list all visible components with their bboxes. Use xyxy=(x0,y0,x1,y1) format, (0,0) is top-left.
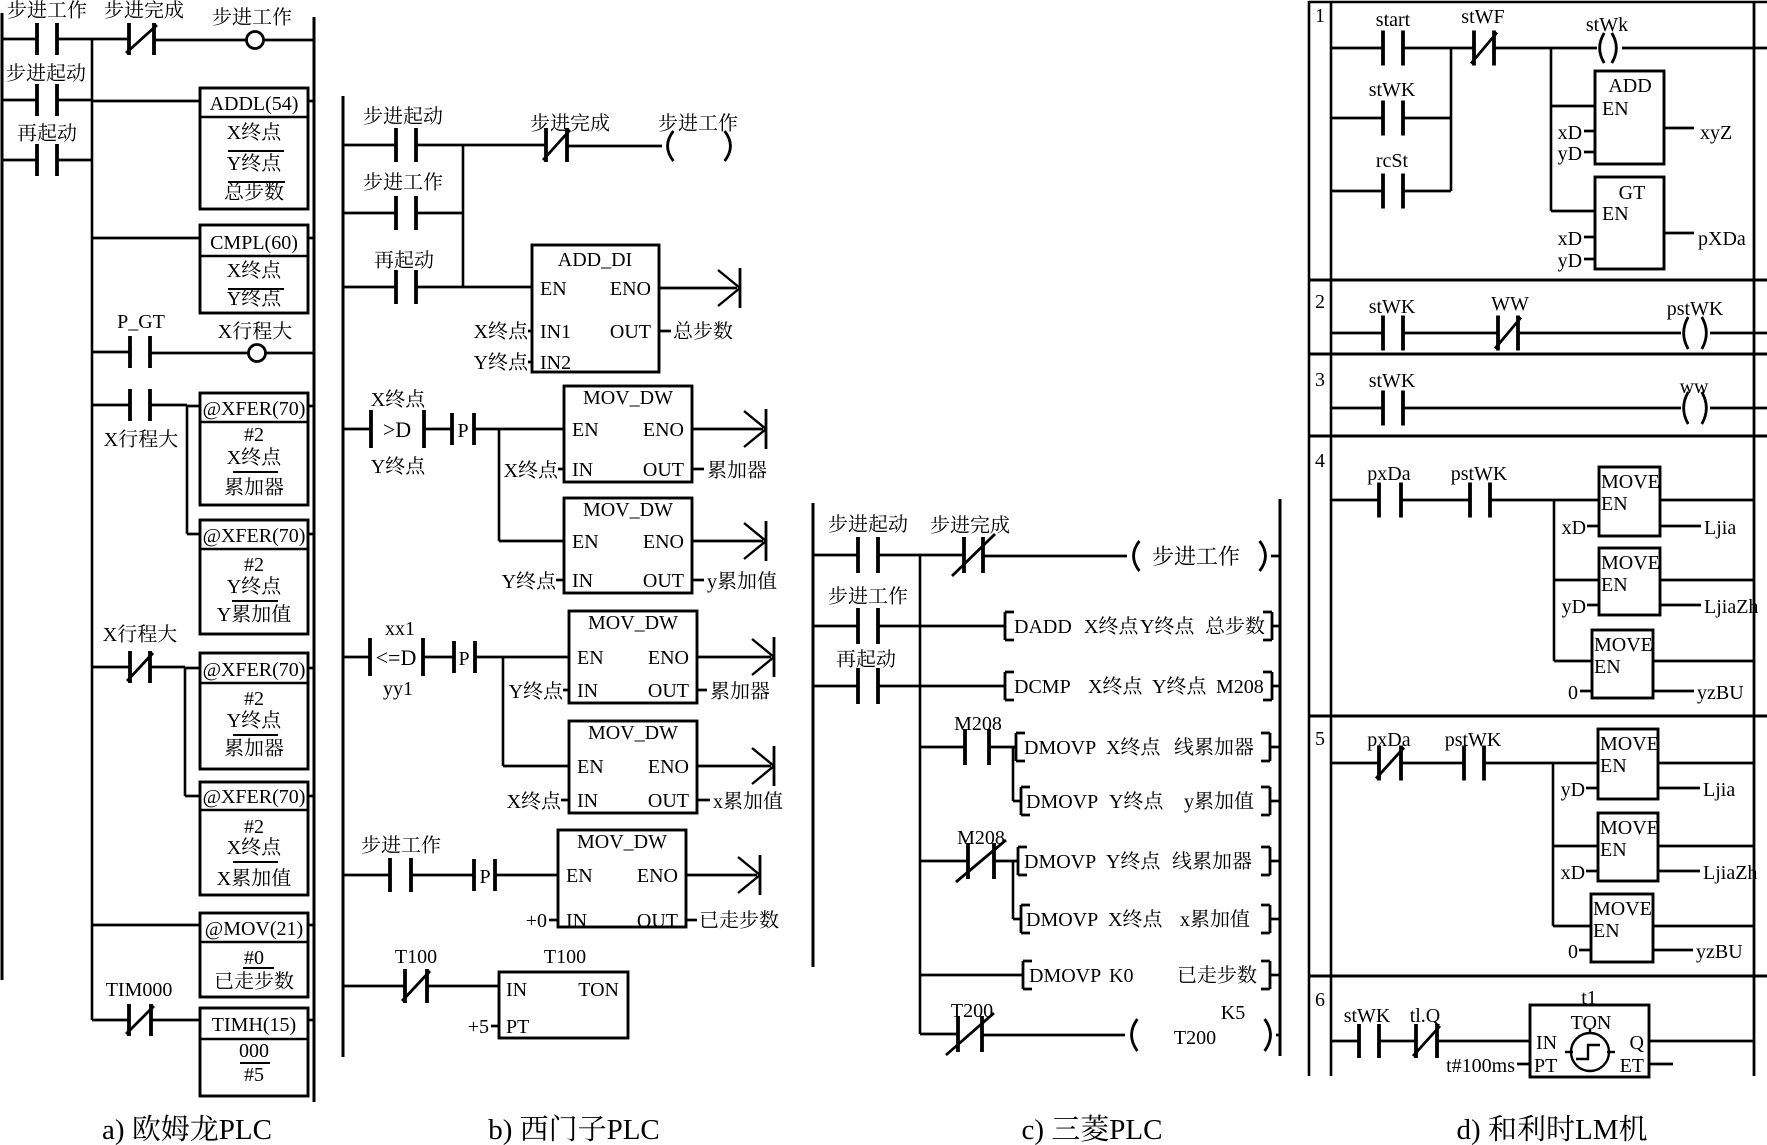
svg-text:LjiaZh: LjiaZh xyxy=(1704,596,1758,618)
MOV_DW #1 pin EN xyxy=(572,419,599,441)
MOV_DW #2 pin IN xyxy=(572,570,593,592)
MOVE n5-2 title xyxy=(1600,817,1659,839)
MOVE n4-2 pin EN xyxy=(1601,574,1628,596)
contact stWK (n1) xyxy=(1383,101,1403,136)
MOV_DW #4 pin EN xyxy=(577,756,604,778)
ADD_DI title xyxy=(558,249,632,271)
function block MOV_DW #1 xyxy=(564,386,692,482)
label xyZ output xyxy=(1700,122,1732,144)
wire: P to MOV3 xyxy=(475,656,569,659)
wire: rung2 a left xyxy=(2,99,37,102)
MOV_DW #2 pin EN xyxy=(572,531,599,553)
wire: ADD_DI OUT out xyxy=(659,330,671,333)
dash yD-ADD xyxy=(1584,151,1595,154)
svg-text:TON: TON xyxy=(578,979,619,1001)
CMPL overline xyxy=(228,288,284,290)
branch vertical n1 (ADD/GT) xyxy=(1550,48,1553,211)
svg-text:y: y xyxy=(707,571,717,593)
@XFER(70) #4 title xyxy=(203,786,306,808)
label network number 2 xyxy=(1315,291,1325,313)
svg-text:K0: K0 xyxy=(1109,965,1133,987)
function block CMPL(60) xyxy=(200,225,308,313)
wire: rung2 b left xyxy=(343,212,396,215)
MOVE n5-3 title xyxy=(1593,898,1652,920)
wire: branch to n5-2 xyxy=(1553,845,1598,848)
branch trunk (c) xyxy=(919,555,922,1034)
TON title xyxy=(578,979,619,1001)
function block MOV_DW #2 xyxy=(564,498,692,593)
XFER4 tick to rail xyxy=(308,795,314,798)
svg-text:EN: EN xyxy=(572,531,599,553)
svg-text:EN: EN xyxy=(577,647,604,669)
svg-text:rcSt: rcSt xyxy=(1376,150,1409,172)
svg-text:start: start xyxy=(1376,9,1411,31)
wire: n3 to coil xyxy=(1403,407,1681,410)
label xD at n5-2 xyxy=(1561,862,1585,884)
TON pin PT xyxy=(506,1016,529,1038)
open branch arrow (MOV5) xyxy=(738,855,760,895)
label TIM000 xyxy=(106,979,173,1001)
svg-text:X: X xyxy=(227,260,242,282)
label 0 at n5-3 xyxy=(1568,941,1578,963)
wire: trunk to CMPL xyxy=(92,237,200,240)
NC contact TIM000 xyxy=(126,1004,154,1036)
svg-text:T100: T100 xyxy=(395,946,437,968)
svg-text:ADDL(54): ADDL(54) xyxy=(210,93,299,115)
svg-text:EN: EN xyxy=(566,865,593,887)
dash X终点-MOV1 xyxy=(558,468,564,471)
function block MOV_DW #5 xyxy=(558,830,686,927)
dash xD n5-2 xyxy=(1586,870,1598,873)
svg-text:xD: xD xyxy=(1558,228,1582,250)
label stWK (n1) xyxy=(1369,79,1416,101)
contact 步进工作 (a r1) xyxy=(37,23,57,55)
label 步进工作 coil label (c r1) xyxy=(1153,546,1239,566)
svg-text:Y: Y xyxy=(1152,676,1166,698)
MOVE n4-1 pin EN xyxy=(1601,493,1628,515)
svg-text:TIMH(15): TIMH(15) xyxy=(212,1014,296,1036)
svg-text:PLC: PLC xyxy=(607,1114,660,1145)
MOVE n4-3 title xyxy=(1594,634,1653,656)
svg-text:M208: M208 xyxy=(957,827,1005,849)
label yy1 (cmp2 bottom) xyxy=(383,678,413,700)
wire: n3 rung left xyxy=(1331,407,1383,410)
MOVE n5-1 pin EN xyxy=(1600,755,1627,777)
svg-text:PLC: PLC xyxy=(1109,1114,1162,1145)
label pXDa output xyxy=(1698,228,1746,250)
function block ADD_DI xyxy=(532,245,659,372)
svg-text:Y: Y xyxy=(371,456,385,478)
svg-text:IN: IN xyxy=(506,979,527,1001)
wire: T200 coil to rail xyxy=(1276,1034,1280,1037)
ADDL overline 2 xyxy=(228,181,285,183)
wire: rung5 b left xyxy=(343,874,390,877)
svg-text:DMOVP: DMOVP xyxy=(1026,791,1098,813)
label ADDL row 总步数 xyxy=(225,182,284,200)
label caption a xyxy=(102,1114,272,1145)
wire: branch to MOV2 xyxy=(499,540,564,543)
svg-text:t#100ms: t#100ms xyxy=(1446,1055,1515,1077)
svg-text:OUT: OUT xyxy=(648,680,689,702)
label 0 at n4-3 xyxy=(1568,682,1578,704)
label +0 at MOV5 IN xyxy=(526,910,547,932)
wire: MOV1 OUT out xyxy=(692,468,704,471)
wire: n1 rcSt to branch xyxy=(1403,190,1451,193)
label xD at ADD xyxy=(1558,122,1582,144)
CMPL(60) title xyxy=(210,232,298,254)
wire: n4 rung left xyxy=(1331,499,1379,502)
svg-text:CMPL(60): CMPL(60) xyxy=(210,232,298,254)
svg-text:GT: GT xyxy=(1619,182,1646,204)
svg-text:#5: #5 xyxy=(244,1064,264,1086)
label yD at n4-2 xyxy=(1562,596,1586,618)
label 累加器 output (MOV3) xyxy=(711,681,770,699)
svg-text:stWK: stWK xyxy=(1369,79,1416,101)
svg-text:pxDa: pxDa xyxy=(1367,463,1410,485)
label 步进工作 (b r2) xyxy=(364,172,443,190)
svg-text:EN: EN xyxy=(572,419,599,441)
label x累加值 output (MOV4) xyxy=(713,791,782,813)
wire: rung3 b left xyxy=(343,286,396,289)
label stWK (n6) xyxy=(1344,1005,1391,1027)
svg-text:IN: IN xyxy=(566,910,587,932)
svg-text:Y: Y xyxy=(227,153,241,175)
svg-text:X: X xyxy=(474,321,489,343)
label LjiaZh output (n4) xyxy=(1704,596,1758,618)
wire: branch to XFER1 xyxy=(187,405,200,408)
outer left border (d) xyxy=(1308,1,1311,1076)
svg-text:P_GT: P_GT xyxy=(117,311,165,333)
wire: n5-1 ENO to rail xyxy=(1658,762,1754,765)
coil 步进工作 (a r1) xyxy=(247,32,264,49)
svg-text:M208: M208 xyxy=(954,713,1002,735)
wire: rung P_GT left xyxy=(92,351,130,354)
contact pstWK (n5) xyxy=(1464,746,1484,781)
svg-text:X: X xyxy=(104,429,119,451)
label pxDa (n5) xyxy=(1367,729,1410,751)
svg-text:Y: Y xyxy=(474,352,488,374)
svg-text:ENO: ENO xyxy=(637,865,678,887)
function block @XFER(70) #1 xyxy=(200,393,308,505)
contact start xyxy=(1383,31,1403,66)
MOV_DW #5 pin IN xyxy=(566,910,587,932)
svg-text:tl.Q: tl.Q xyxy=(1410,1005,1441,1027)
TON (d) title xyxy=(1571,1012,1612,1034)
XFER3 overline xyxy=(233,734,278,736)
function block GT xyxy=(1595,177,1664,269)
svg-text:c): c) xyxy=(1022,1114,1045,1145)
wire: trunk to ADDL xyxy=(92,100,200,103)
MOV_DW #3 title xyxy=(588,612,678,634)
DMOVP5 tick to rail xyxy=(1270,974,1280,977)
wire: coil to rail (c r1) xyxy=(1271,555,1280,558)
instruction DCMP brackets xyxy=(1005,672,1272,700)
contact rcSt xyxy=(1383,174,1403,209)
CMPL title divider xyxy=(200,255,308,257)
dash Y终点-MOV2 xyxy=(556,579,564,582)
label XFER1 row #2 xyxy=(244,424,264,446)
wire: rung3 a to trunk xyxy=(57,159,92,162)
ADDL tick to rail xyxy=(308,100,314,103)
function block MOVE n5-2 xyxy=(1598,813,1658,881)
TIMH(15) title xyxy=(212,1014,296,1036)
MOV_DW #3 pin EN xyxy=(577,647,604,669)
label X行程大 (NC contact) xyxy=(103,624,177,646)
wire: TON Q to rail xyxy=(1649,1040,1754,1043)
DMOVP1 tick to rail xyxy=(1270,746,1280,749)
svg-text:xyZ: xyZ xyxy=(1700,122,1732,144)
svg-text:IN: IN xyxy=(577,790,598,812)
svg-text:DMOVP: DMOVP xyxy=(1024,737,1096,759)
wire: ADD out xyxy=(1664,127,1694,130)
wire: branch to n5-3 xyxy=(1553,925,1591,928)
label X行程大 coil label xyxy=(218,321,292,343)
svg-text:stWK: stWK xyxy=(1369,370,1416,392)
wire: n1 coil to edge xyxy=(1622,47,1767,50)
label T100 contact label xyxy=(395,946,437,968)
MOV_DW #3 pin IN xyxy=(577,680,598,702)
svg-text:X: X xyxy=(218,321,233,343)
svg-text:EN: EN xyxy=(1602,203,1629,225)
contact 步进工作 (b r2) xyxy=(396,196,416,230)
P contact (r6) xyxy=(474,859,495,891)
MOV_DW #2 pin ENO xyxy=(643,531,684,553)
label 再起动 (a r3) xyxy=(18,123,77,141)
NC contact WW xyxy=(1495,316,1521,351)
function block TIMH(15) xyxy=(200,1008,308,1096)
wire: n6 mid xyxy=(1379,1040,1416,1043)
wire: rung cmp2 left xyxy=(343,656,370,659)
wire: n5 rung left xyxy=(1331,762,1379,765)
XFER4 overline xyxy=(233,861,278,863)
MOVE n4-2 title xyxy=(1601,552,1660,574)
GT pin EN xyxy=(1602,203,1629,225)
svg-text:5: 5 xyxy=(1315,728,1325,750)
wire: n1 mid1 xyxy=(1403,47,1474,50)
dash X终点-IN1 xyxy=(528,330,532,333)
label pstWK (n4) xyxy=(1451,463,1508,485)
DMOVP2 tick to rail xyxy=(1270,800,1280,803)
wire: rung XFER3 left xyxy=(92,666,130,669)
svg-text:+5: +5 xyxy=(468,1016,489,1038)
@XFER(70) #2 title xyxy=(203,525,306,547)
dash yD n4-2 xyxy=(1587,604,1599,607)
wire: MOV5 ENO out xyxy=(686,874,757,877)
svg-text:T200: T200 xyxy=(1174,1027,1216,1049)
label Ljia output (n5) xyxy=(1703,779,1735,801)
open branch arrow (MOV3) xyxy=(752,637,774,677)
branch vertical (XFER3/4) xyxy=(184,667,187,796)
wire: rung T100 left xyxy=(343,985,405,988)
instruction DMOVP1 text xyxy=(1024,737,1254,759)
label stWk xyxy=(1586,14,1628,36)
label 步进工作 (b r6) xyxy=(362,835,441,853)
branch vertical (MOV3/4) xyxy=(502,657,505,766)
@MOV(21) title xyxy=(205,918,303,940)
svg-text:Y: Y xyxy=(217,604,231,626)
dash 0 n4-3 xyxy=(1580,690,1592,693)
ADD pin EN xyxy=(1602,98,1629,120)
svg-text:x: x xyxy=(713,791,723,813)
left power rail (a) xyxy=(1,13,4,980)
wire: n4-2 ENO to rail xyxy=(1660,579,1754,582)
function block MOVE n4-1 xyxy=(1599,467,1660,536)
XFER1 tick to rail xyxy=(308,405,314,408)
NC contact 步进完成 (b r1) xyxy=(543,128,570,162)
MOV_DW #1 title xyxy=(583,387,673,409)
label 步进工作 (c r2) xyxy=(829,586,908,604)
svg-text:+0: +0 xyxy=(526,910,547,932)
ADDL(54) title xyxy=(210,93,299,115)
NC contact M208 xyxy=(956,840,1006,882)
contact 再起动 (a r3) xyxy=(37,144,57,176)
wire: branch to GT EN xyxy=(1551,210,1595,213)
label T100 timer name xyxy=(544,946,586,968)
wire: rung TIMH left xyxy=(92,1019,129,1022)
contact 步进起动 (a r2) xyxy=(37,84,57,116)
wire: n3 coil to edge xyxy=(1710,407,1767,410)
network separator 3-4 xyxy=(1309,435,1767,438)
NC contact 步进完成 (a r1) xyxy=(126,23,157,55)
svg-text:ET: ET xyxy=(1620,1055,1644,1077)
wire: n5-3 ENO to rail xyxy=(1653,925,1754,928)
wire: n5-2 out xyxy=(1658,870,1700,873)
svg-text:ENO: ENO xyxy=(643,531,684,553)
dash yD n5-1 xyxy=(1586,787,1598,790)
wire: rung cmp1 left xyxy=(343,428,371,431)
svg-text:yD: yD xyxy=(1562,596,1586,618)
P text (r4) xyxy=(457,420,468,442)
wire: contact to branch1 xyxy=(150,404,187,407)
TIMH tick to rail xyxy=(308,1019,314,1022)
wire: MOV3 ENO out xyxy=(697,656,771,659)
label xD at GT xyxy=(1558,228,1582,250)
svg-text:PT: PT xyxy=(506,1016,529,1038)
right power rail (c) xyxy=(1279,499,1282,1056)
wire: n1 rcSt rung xyxy=(1331,190,1383,193)
dash +0-MOV5 xyxy=(549,919,558,922)
P contact (r5) xyxy=(454,641,475,673)
svg-text:X: X xyxy=(1084,616,1099,638)
branch vertical n1 (stWK/rcSt) xyxy=(1450,48,1453,191)
wire: rung1 c to coil xyxy=(983,555,1127,558)
wire: branch to DMOVP4 xyxy=(1013,918,1021,921)
wire: GT out xyxy=(1664,232,1694,235)
wire: P to MOV5 xyxy=(495,874,558,877)
label XFER4 row #2 xyxy=(244,816,264,838)
contact 步进起动 (b r1) xyxy=(396,128,416,162)
wire: n4-1 ENO to rail xyxy=(1660,499,1754,502)
wire: MOV1 ENO out xyxy=(692,428,763,431)
svg-text:X: X xyxy=(103,624,118,646)
svg-text:X: X xyxy=(1088,676,1103,698)
wire: rung3 c mid xyxy=(878,685,1005,688)
wire: M208b to bracket xyxy=(994,860,1018,863)
wire: n4 to branch xyxy=(1490,499,1599,502)
label network number 5 xyxy=(1315,728,1325,750)
wire: rung2 c left xyxy=(813,625,858,628)
label t#100ms at PT xyxy=(1446,1055,1515,1077)
svg-text:MOV_DW: MOV_DW xyxy=(588,612,678,634)
coil ww xyxy=(1684,392,1707,424)
wire: n1 stWK to branch xyxy=(1403,117,1451,120)
svg-text:ENO: ENO xyxy=(648,756,689,778)
open branch arrow (MOV1) xyxy=(744,409,766,449)
wire: n2 coil to edge xyxy=(1710,332,1767,335)
svg-text:P: P xyxy=(479,866,490,888)
svg-text:d): d) xyxy=(1457,1114,1481,1145)
left power rail (b) xyxy=(342,96,345,1057)
svg-text:IN: IN xyxy=(1536,1032,1557,1054)
svg-text:b): b) xyxy=(488,1114,512,1145)
dash xD n4-1 xyxy=(1587,525,1599,528)
label +5 at TON PT xyxy=(468,1016,489,1038)
label t1 label xyxy=(1581,987,1597,1009)
branch vertical (XFER1/2) xyxy=(186,405,189,534)
NC contact T100 xyxy=(402,969,430,1003)
wire: rung M208a left xyxy=(920,746,965,749)
wire: rung2 a to trunk xyxy=(57,99,92,102)
label X行程大 (NO contact) xyxy=(104,429,178,451)
svg-text:ADD: ADD xyxy=(1608,75,1651,97)
svg-text:EN: EN xyxy=(577,756,604,778)
label caption d xyxy=(1457,1114,1647,1145)
svg-text:1: 1 xyxy=(1315,5,1325,27)
wire: rung M208b left xyxy=(920,860,968,863)
wire: rung2 c mid xyxy=(878,625,1005,628)
XFER4 title divider xyxy=(200,809,308,811)
label K5 label xyxy=(1221,1002,1245,1024)
svg-text:M208: M208 xyxy=(1216,676,1264,698)
label X终点 (cmp1 top) xyxy=(371,389,424,411)
svg-text:P: P xyxy=(458,648,469,670)
wire: P_GT to coil xyxy=(150,352,248,355)
svg-text:T100: T100 xyxy=(544,946,586,968)
wire: TIM000 to TIMH xyxy=(151,1019,200,1022)
svg-text:IN: IN xyxy=(577,680,598,702)
svg-text:EN: EN xyxy=(540,278,567,300)
label CMPL row Y终点 xyxy=(227,288,280,310)
svg-text:OUT: OUT xyxy=(648,790,689,812)
ADD_DI pin IN1 xyxy=(540,321,571,343)
wire: branch to MOV4 xyxy=(503,765,569,768)
MOV_DW #3 pin ENO xyxy=(648,647,689,669)
TON pin IN xyxy=(506,979,527,1001)
TON (d) pin IN xyxy=(1536,1032,1557,1054)
dash xD-GT xyxy=(1584,236,1595,239)
instruction DMOVP4 text xyxy=(1026,909,1249,931)
label M208 (NO contact) xyxy=(954,713,1002,735)
wire: MOV4 ENO out xyxy=(697,765,771,768)
svg-text:yD: yD xyxy=(1561,779,1585,801)
svg-text:xD: xD xyxy=(1562,517,1586,539)
function block MOVE n5-3 xyxy=(1591,894,1653,962)
svg-text:0: 0 xyxy=(1568,682,1578,704)
open branch arrow (MOV4) xyxy=(752,746,774,786)
contact 再起动 (b r3) xyxy=(396,270,416,304)
comparator contact <=D bars xyxy=(370,638,423,676)
label Y终点 at MOV3 IN xyxy=(509,681,562,703)
dash 0 n5-3 xyxy=(1579,949,1591,952)
svg-text:>D: >D xyxy=(383,417,411,442)
label P_GT xyxy=(117,311,165,333)
svg-text:y: y xyxy=(1184,791,1194,813)
MOV_DW #2 title xyxy=(583,499,673,521)
svg-text:MOVE: MOVE xyxy=(1600,733,1659,755)
svg-text:DCMP: DCMP xyxy=(1014,676,1071,698)
function block MOVE n4-2 xyxy=(1599,548,1660,615)
ADD title xyxy=(1608,75,1651,97)
